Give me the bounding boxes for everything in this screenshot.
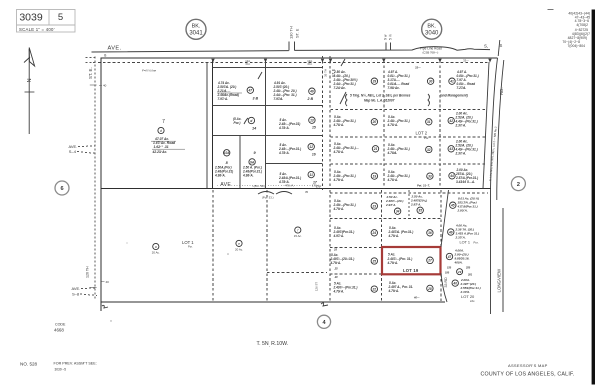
svg-text:47: 47 (447, 255, 452, 259)
avenue top south dashed line (93, 62, 488, 64)
parcel circled f (294, 227, 302, 238)
svg-text:32: 32 (427, 148, 431, 152)
parcel 3B block (217, 81, 259, 101)
svg-text:e: e (238, 242, 240, 246)
svg-text:4.78∕ A.: 4.78∕ A. (333, 150, 345, 154)
mid grid cell divider 8/9 (239, 135, 241, 188)
svg-text:5 ½: 5 ½ (389, 34, 393, 40)
svg-text:CODE: CODE (55, 322, 66, 326)
svg-text:4668: 4668 (54, 328, 64, 333)
parcel 23 (333, 199, 378, 211)
svg-text:27: 27 (427, 259, 432, 263)
right grid row line 2 (331, 136, 487, 138)
east road west edge (491, 58, 498, 314)
circle 4 (317, 315, 330, 328)
south grid east dashed (440, 190, 442, 246)
svg-text:40—: 40— (413, 296, 420, 300)
svg-text:40: 40 (452, 282, 457, 286)
title box (17, 10, 76, 33)
svg-text:2.97∕ A.: 2.97∕ A. (385, 203, 396, 207)
svg-text:AVE.: AVE. (108, 45, 122, 51)
svg-text:28: 28 (427, 287, 432, 291)
svg-text:S–4: S–4 (69, 149, 77, 154)
svg-text:F=N ½ line: F=N ½ line (142, 69, 156, 73)
svg-text:7.98∕ Ac.: 7.98∕ Ac. (388, 86, 400, 90)
parcel 19 row3 left (333, 170, 378, 182)
svg-text:21: 21 (373, 147, 378, 151)
svg-text:2.97∕ A.: 2.97∕ A. (410, 203, 421, 207)
mid grid top boundary (213, 67, 323, 69)
corner dashes top-left (86, 57, 96, 59)
svg-text:LOT 19: LOT 19 (403, 268, 419, 273)
parcel 14 (233, 117, 257, 131)
svg-text:40: 40 (103, 84, 107, 88)
left street dashed line (94, 57, 96, 301)
parcel 41 row0 east (449, 70, 479, 90)
south grid row dashed 2 (330, 247, 382, 249)
svg-text:2.37∕ A.: 2.37∕ A. (455, 236, 466, 240)
svg-text:2.93∕ A.: 2.93∕ A. (457, 209, 468, 213)
svg-text:2.37∕ A.: 2.37∕ A. (455, 152, 467, 156)
parcel 36 (388, 226, 434, 238)
ave s-8 label (72, 280, 110, 297)
svg-text:LOT 1: LOT 1 (460, 241, 470, 245)
svg-text:25: 25 (372, 259, 377, 263)
parcel 9 (242, 151, 262, 178)
svg-text:42: 42 (448, 119, 453, 123)
svg-text:41: 41 (449, 80, 454, 84)
row A split divider (408, 190, 410, 218)
svg-text:20 Ac.: 20 Ac. (152, 251, 160, 255)
svg-text:5 Ting. N½, NE¼, Lot 2, SE¼ pe: 5 Ting. N½, NE¼, Lot 2, SE¼ per Bennes (350, 94, 411, 98)
33rd road slant upper (441, 190, 449, 247)
svg-text:SCALE 1” = 400’: SCALE 1” = 400’ (19, 27, 55, 32)
parcel 47 east (446, 249, 469, 265)
mid grid right row line 3 (266, 163, 323, 165)
svg-text:T. 5N, R.10W.: T. 5N, R.10W. (257, 341, 289, 348)
lot 1 east circled e (235, 240, 243, 251)
svg-text:25: 25 (333, 248, 337, 252)
svg-text:180: 180 (445, 272, 450, 275)
circle parcel 6 (55, 181, 69, 195)
svg-text:9 w: 9 w (383, 34, 387, 40)
svg-text:130 TH: 130 TH (289, 26, 294, 39)
svg-text:6: 6 (60, 186, 63, 192)
svg-text:126 TH: 126 TH (86, 266, 90, 278)
svg-text:2: 2 (517, 182, 520, 188)
svg-text:(and Management): (and Management) (440, 94, 468, 98)
svg-text:Por.: Por. (424, 136, 429, 140)
svg-text:1.62∕ “ .31: 1.62∕ “ .31 (154, 145, 169, 149)
svg-text:4.78∕ A.: 4.78∕ A. (278, 151, 290, 155)
svg-text:34: 34 (396, 210, 400, 214)
mid grid column divider (265, 61, 267, 189)
svg-text:4.78∕ A.: 4.78∕ A. (387, 178, 399, 182)
svg-text:44: 44 (449, 174, 454, 178)
svg-text:4.98∕ A.: 4.98∕ A. (214, 174, 226, 178)
svg-text:42.23∕ Ac.: 42.23∕ Ac. (152, 150, 168, 154)
black scan bar right edge (592, 10, 595, 385)
parcel 25 (330, 248, 378, 280)
svg-text:. AVE.: . AVE. (217, 182, 233, 188)
svg-text:150: 150 (447, 267, 452, 270)
svg-text:170′: 170′ (316, 185, 321, 189)
svg-text:3040: 3040 (425, 31, 439, 37)
svg-text:4.79∕ A.: 4.79∕ A. (388, 234, 400, 238)
right grid column divider 2 (439, 61, 441, 189)
svg-text:7.97∕A.: 7.97∕A. (274, 97, 284, 101)
handwritten list top-right (548, 10, 591, 48)
svg-text:COUNTY OF LOS ANGELES, CALIF.: COUNTY OF LOS ANGELES, CALIF. (481, 371, 575, 377)
left street solid line (100, 58, 102, 311)
svg-text:ASSESSOR’S MAP: ASSESSOR’S MAP (508, 363, 548, 368)
svg-text:35: 35 (305, 190, 309, 194)
svg-text:47: 47 (248, 89, 253, 93)
svg-text:126 ST: 126 ST (315, 282, 319, 291)
svg-text:9A: 9A (250, 160, 255, 164)
svg-text:46: 46 (309, 90, 314, 94)
svg-text:4.79∕ A.: 4.79∕ A. (333, 178, 345, 182)
svg-text:16: 16 (312, 153, 316, 157)
parcel 29 row0 left (333, 70, 378, 90)
svg-text:33—: 33— (415, 66, 421, 70)
svg-text:2Ac.: 2Ac. (470, 299, 475, 303)
svg-text:7(004)−804: 7(004)−804 (568, 44, 586, 48)
svg-text:B: B (104, 54, 106, 58)
east road east edge (497, 60, 504, 200)
dimension notes under ave (252, 183, 318, 199)
parcel 20 row1 left (333, 115, 378, 127)
ave middle line (101, 188, 491, 190)
svg-text:4.79∕ A.: 4.79∕ A. (387, 261, 399, 265)
svg-text:4.79∕ A.: 4.79∕ A. (333, 207, 345, 211)
avenue top line (101, 57, 498, 59)
svg-text:15 Ac.: 15 Ac. (294, 234, 302, 238)
svg-text:30: 30 (429, 80, 433, 84)
svg-text:23: 23 (372, 204, 377, 208)
parcel 17 (278, 171, 321, 188)
svg-text:29: 29 (457, 270, 462, 274)
svg-text:7.97∕ A.: 7.97∕ A. (218, 97, 229, 101)
svg-text:3.43∕16 5—A.: 3.43∕16 5—A. (456, 180, 475, 184)
svg-text:3039: 3039 (19, 12, 43, 24)
parcel 32 row2 middle (387, 143, 432, 155)
parcel 2B block (273, 81, 316, 101)
svg-text:a: a (155, 245, 157, 249)
dashed line below ave east (330, 192, 488, 194)
svg-text:LOT 1: LOT 1 (182, 240, 194, 245)
tick 40 upper (90, 84, 107, 88)
right grid east boundary slanted (483, 62, 489, 189)
lot 1 south parcel circled a (152, 243, 160, 254)
street east dashed line (329, 56, 331, 189)
parcel 40 east (452, 278, 481, 294)
svg-text:3039 –5: 3039 –5 (55, 368, 67, 372)
svg-text:36: 36 (428, 231, 432, 235)
BK 3040 circle (422, 19, 442, 39)
svg-text:RD.: RD. (499, 87, 504, 95)
svg-text:20: 20 (372, 120, 377, 124)
svg-text:45: 45 (450, 204, 455, 208)
svg-text:5: 5 (58, 12, 63, 23)
south grid row dashed 3 (330, 273, 382, 275)
mid grid row line 2 (213, 134, 323, 136)
parcel 35 half cell (410, 195, 427, 214)
svg-text:24: 24 (372, 231, 377, 235)
svg-text:43: 43 (448, 147, 453, 151)
bottom squiggle mid (321, 303, 328, 306)
svg-text:400A.: 400A. (454, 261, 463, 265)
svg-text:10A: 10A (224, 151, 231, 155)
svg-text:ST. E: ST. E (294, 28, 299, 38)
svg-text:4.78∕ A.: 4.78∕ A. (278, 180, 290, 184)
svg-text:2.37∕ A.: 2.37∕ A. (455, 124, 467, 128)
svg-text:.25: .25 (334, 267, 338, 271)
33rd road slant lower (441, 273, 447, 302)
parcel 45 east (450, 197, 479, 213)
top interval labels (245, 59, 469, 67)
svg-text:d: d (250, 119, 252, 123)
right grid row line 1 (331, 108, 488, 110)
svg-text:4(708)2: 4(708)2 (576, 23, 588, 27)
parcel 44 row3 east (449, 168, 478, 184)
svg-text:4.78∕ A.: 4.78∕ A. (333, 123, 345, 127)
svg-text:Por.): Por.) (234, 121, 241, 125)
right grid column divider 1 (383, 61, 385, 189)
top tick arrows (211, 59, 491, 63)
parcel 8 (214, 150, 233, 178)
svg-text:d: d (160, 129, 162, 133)
svg-text:(CSB 768—): (CSB 768—) (423, 51, 439, 55)
right grid row line 3 (331, 163, 486, 165)
svg-text:7.24∕ Ac.: 7.24∕ Ac. (334, 86, 346, 90)
slash tick cell 2B (341, 59, 345, 66)
parcel 16 (278, 143, 316, 157)
svg-text:4.78∕A.: 4.78∕A. (387, 151, 398, 155)
svg-text:4.98∕ A.: 4.98∕ A. (242, 174, 254, 178)
svg-text:N: N (27, 78, 33, 82)
svg-text:29: 29 (372, 80, 377, 84)
south grid row dashed 1 (330, 218, 441, 220)
south grid west dashed (329, 190, 331, 302)
east road east edge lower (502, 208, 504, 312)
dashed south verticals (212, 190, 214, 302)
130th st stub (289, 26, 300, 50)
svg-text:40: 40 (106, 280, 110, 284)
parcel 7 circled d (158, 127, 164, 133)
svg-text:4.79∕ A.: 4.79∕ A. (333, 290, 345, 294)
red highlight rectangle lot 19 (382, 247, 441, 274)
svg-text:13: 13 (310, 119, 314, 123)
parcel 29s small circle (445, 267, 473, 277)
svg-text:Por.: Por. (188, 245, 193, 249)
mid grid west boundary (212, 61, 214, 189)
svg-text:S,: S, (484, 44, 488, 49)
avenue top north edge line (92, 47, 491, 52)
svg-text:Pet. 31–7,: Pet. 31–7, (417, 184, 430, 188)
slash tick cell 3B (258, 72, 262, 79)
svg-text:7.27∕A.: 7.27∕A. (457, 86, 467, 90)
ave s-4 label (69, 144, 98, 154)
svg-text:35 TH: 35 TH (324, 69, 328, 77)
svg-text:S: S (500, 43, 503, 48)
svg-text:(Por. 33.): (Por. 33.) (262, 196, 274, 200)
svg-text:Por.: Por. (474, 241, 479, 245)
svg-text:4.78∕ A.: 4.78∕ A. (278, 126, 290, 130)
street stub mid (383, 34, 392, 50)
svg-text:35: 35 (418, 209, 422, 213)
svg-text:4.79∕ A.: 4.79∕ A. (330, 261, 342, 265)
mid grid east dashed street line (322, 56, 324, 190)
parcel 34 half cell (385, 195, 403, 214)
bottom boundary line (101, 301, 445, 303)
svg-text:Map No. L.A. 612007: Map No. L.A. 612007 (364, 99, 395, 103)
svg-text:15: 15 (312, 126, 316, 130)
svg-text:7: 7 (162, 119, 165, 125)
BK 3041 circle (186, 19, 206, 39)
svg-text:LOT 2: LOT 2 (416, 131, 428, 136)
svg-text:LONGVIEW: LONGVIEW (497, 268, 502, 293)
svg-text:3 B: 3 B (253, 97, 259, 101)
svg-text:33 RD: 33 RD (444, 277, 448, 288)
svg-text:Por.: Por. (308, 62, 313, 66)
svg-text:Por.: Por. (246, 62, 251, 66)
svg-text:12: 12 (309, 145, 313, 149)
parcel 22 (333, 282, 378, 294)
svg-text:.30: .30 (334, 275, 338, 279)
parcel 15 (278, 117, 316, 130)
svg-text:22: 22 (372, 288, 377, 292)
svg-text:FOR PREV. ASSM’T SEE:: FOR PREV. ASSM’T SEE: (54, 362, 97, 366)
bracket annotation (340, 92, 468, 106)
parcel 24 (333, 226, 378, 238)
svg-text:20 Ac.: 20 Ac. (235, 247, 243, 251)
west parcel east boundary (206, 62, 208, 189)
svg-text:S–8: S–8 (72, 292, 80, 297)
parcel 42 row1 east (448, 112, 478, 128)
svg-text:AVE.: AVE. (72, 286, 81, 291)
svg-text:11: 11 (310, 173, 314, 177)
svg-text:4.78∕ A.: 4.78∕ A. (387, 123, 399, 127)
parcel 21 row2 left (333, 142, 379, 154)
east road stub above ave (498, 40, 500, 56)
svg-text:4.79∕ A.: 4.79∕ A. (388, 289, 400, 293)
svg-text:BK.: BK. (192, 24, 201, 30)
dashed divider east cell (267, 271, 327, 273)
svg-text:3041: 3041 (189, 31, 203, 37)
south grid column divider dashed (381, 190, 383, 302)
faint specks (110, 320, 111, 321)
svg-text:470 ∕ A.: 470 ∕ A. (285, 183, 294, 187)
mid grid row line 1 (213, 105, 323, 107)
svg-text:250: 250 (465, 267, 471, 270)
parcel 43 row2 east (448, 140, 478, 156)
bottom squiggle left (102, 305, 108, 308)
svg-text:33—: 33— (463, 59, 469, 63)
north arrow (24, 48, 35, 135)
svg-text:BK.: BK. (427, 24, 436, 30)
fine dotted line above ave (234, 185, 318, 187)
svg-text:4.97∕ A.: 4.97∕ A. (333, 234, 345, 238)
circle 2 (511, 177, 525, 191)
svg-text:LOT 20: LOT 20 (461, 294, 475, 299)
svg-text:31: 31 (427, 120, 431, 124)
parcel 30 row0 middle (387, 66, 434, 91)
parcel 46 east (448, 224, 480, 240)
svg-text:ST. E.: ST. E. (88, 67, 93, 79)
parcel 7 acreage block (151, 137, 185, 154)
parcel 28 (388, 281, 434, 300)
svg-text:NO. 528: NO. 528 (20, 361, 38, 366)
svg-text:281: 281 (467, 274, 473, 277)
parcel 33 row3 middle (387, 170, 434, 188)
svg-text:46: 46 (448, 230, 453, 234)
svg-text:33: 33 (428, 175, 432, 179)
svg-text:19: 19 (373, 175, 377, 179)
svg-text:2 B: 2 B (307, 97, 314, 101)
parcel 31 row1 middle (387, 115, 432, 127)
parcel 27 in red rect (387, 253, 434, 266)
